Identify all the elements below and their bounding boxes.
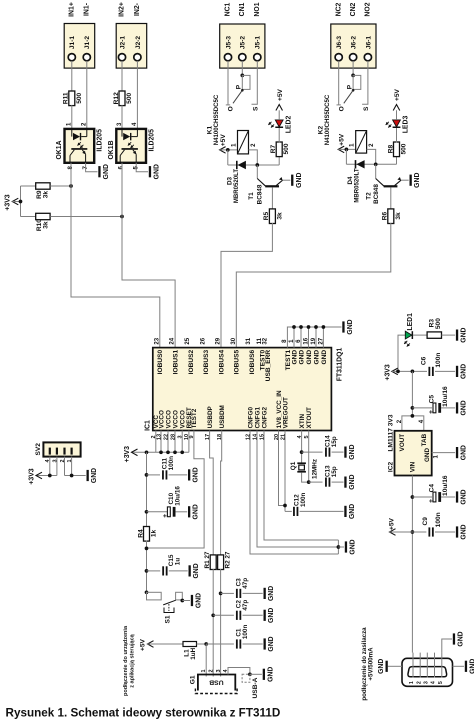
svg-text:10u/16: 10u/16 [174, 486, 181, 506]
capacitor C5 [428, 386, 449, 414]
svg-text:32: 32 [263, 337, 269, 344]
relay K2 contact [337, 61, 371, 112]
wire [300, 510, 344, 512]
svg-text:GND: GND [91, 468, 98, 483]
svg-text:VCCO: VCCO [158, 410, 165, 428]
wire [86, 163, 98, 172]
ground C10 [188, 504, 200, 519]
svg-text:IC1: IC1 [144, 420, 151, 431]
svg-text:GND: GND [193, 467, 200, 482]
svg-text:USB-A: USB-A [252, 677, 259, 698]
note right [361, 627, 375, 701]
node shield [248, 672, 252, 676]
node LED1 [396, 370, 400, 374]
svg-text:100n: 100n [168, 456, 175, 471]
svg-text:2: 2 [208, 669, 214, 672]
IC1 pin USB_ERR [263, 337, 273, 381]
svg-text:15p: 15p [331, 466, 338, 477]
resistor R2 [218, 551, 232, 569]
svg-text:J6-1: J6-1 [365, 36, 372, 50]
wire [411, 476, 413, 653]
wire [136, 163, 148, 172]
svg-text:100n: 100n [242, 625, 249, 640]
mini-USB pins [409, 653, 444, 684]
svg-text:O: O [228, 106, 235, 111]
IC1 bottom power pins [151, 407, 198, 452]
wire [285, 510, 292, 512]
node C11 [145, 473, 149, 477]
svg-text:+3V3: +3V3 [124, 446, 131, 462]
wire [249, 150, 258, 165]
svg-text:NO2: NO2 [365, 2, 372, 16]
svg-text:VCCO: VCCO [172, 410, 179, 428]
wire [302, 472, 309, 482]
wire 3V3 rail [146, 452, 148, 527]
svg-text:LED3: LED3 [403, 116, 410, 134]
connector J6 [331, 2, 376, 68]
wire IOBUS0 [71, 163, 160, 348]
wire [220, 149, 238, 151]
IC1 pin XTIN [297, 414, 306, 439]
svg-text:GND: GND [193, 504, 200, 519]
wire [243, 592, 263, 594]
node VBUS [204, 642, 208, 646]
node +3V3 [19, 200, 23, 204]
svg-text:+3V3: +3V3 [4, 194, 11, 210]
svg-text:GND: GND [321, 350, 328, 365]
supply +3V3 SV2 [28, 468, 42, 484]
caption [6, 707, 281, 720]
svg-text:BC848: BC848 [257, 184, 264, 204]
ground C12 [344, 504, 356, 519]
inductor L1 [183, 642, 197, 660]
wire [278, 128, 280, 143]
svg-text:CNFG2: CNFG2 [261, 406, 268, 428]
svg-text:CNFG0: CNFG0 [247, 406, 254, 428]
svg-text:IOBUS0: IOBUS0 [157, 349, 164, 374]
wire [50, 216, 122, 218]
IC1 pin TEST0 [257, 337, 267, 370]
wire [206, 643, 234, 645]
wire USBDM [221, 431, 222, 556]
svg-text:+5V: +5V [388, 517, 395, 530]
ground T1 [291, 173, 303, 188]
svg-text:GND: GND [298, 350, 305, 365]
wire [212, 569, 214, 677]
ground C11 [188, 467, 200, 482]
ground T2 [410, 173, 422, 188]
IC1 pin 1V8_VCC_IN [274, 390, 283, 440]
wire [402, 416, 424, 431]
svg-text:3k: 3k [276, 212, 283, 220]
svg-text:J2-2: J2-2 [135, 36, 142, 50]
svg-text:IN1+: IN1+ [68, 2, 75, 17]
svg-text:D3: D3 [227, 176, 234, 185]
svg-text:GND: GND [296, 173, 303, 188]
svg-text:R8: R8 [387, 144, 394, 153]
svg-text:500: 500 [400, 143, 407, 154]
ground IC1 [342, 319, 354, 334]
ground mini-USB right [465, 659, 474, 674]
IC1 pin USBDP [205, 406, 214, 440]
ground C4 [456, 489, 468, 504]
wire [121, 105, 123, 129]
svg-text:+5V: +5V [339, 133, 346, 146]
svg-text:S1: S1 [164, 615, 171, 623]
svg-text:GND: GND [195, 593, 202, 608]
IC1 pin TEST1 [282, 339, 292, 370]
svg-text:GND: GND [306, 350, 313, 365]
wire TEST2 [147, 431, 205, 549]
svg-text:+5V: +5V [140, 638, 147, 651]
svg-text:1uH: 1uH [190, 647, 197, 659]
IC1 pin VREGOUT [280, 397, 289, 440]
wire [398, 335, 405, 371]
node C4 [411, 495, 415, 499]
ground SV2 [87, 468, 99, 483]
supply +5V LED3 [393, 88, 401, 110]
svg-text:VIN: VIN [410, 461, 417, 472]
svg-text:GND: GND [291, 350, 298, 365]
svg-text:GND: GND [268, 586, 275, 601]
wire CNFG1 [257, 431, 338, 548]
svg-text:USB_ERR: USB_ERR [265, 350, 272, 382]
svg-text:IN1-: IN1- [83, 2, 90, 16]
resistor R9 [36, 183, 50, 199]
svg-text:USBDM: USBDM [219, 405, 226, 428]
resistor R5 [263, 209, 283, 224]
supply +5V K2 [338, 133, 345, 152]
svg-text:100n: 100n [435, 353, 442, 368]
svg-text:S: S [363, 106, 370, 111]
wire [435, 531, 455, 533]
resistor R1 [204, 551, 216, 569]
wire [213, 614, 234, 616]
wire [278, 110, 280, 120]
wire [346, 163, 396, 165]
svg-text:J5-2: J5-2 [240, 36, 247, 50]
node SV2-3V3 [48, 474, 52, 478]
ground C13 [344, 474, 356, 489]
node R9-OK1A [69, 184, 73, 188]
svg-text:IOBUS4: IOBUS4 [218, 349, 225, 374]
note left [123, 625, 136, 696]
node C10 [145, 510, 149, 514]
svg-text:LED1: LED1 [407, 313, 414, 331]
svg-text:1u: 1u [175, 558, 182, 566]
wire GND bus [287, 325, 341, 347]
svg-text:ILD205: ILD205 [148, 129, 155, 152]
svg-text:+3V3: +3V3 [28, 468, 35, 484]
svg-text:3: 3 [216, 669, 222, 672]
IC1 CNFG pins [245, 406, 268, 440]
svg-text:VCCO: VCCO [165, 410, 172, 428]
optocoupler OK1B [108, 122, 155, 170]
node VOUT [411, 414, 415, 418]
svg-text:GND: GND [349, 539, 356, 554]
wire [205, 644, 207, 677]
svg-text:GND: GND [414, 173, 421, 188]
wire [435, 370, 455, 372]
svg-text:VREGOUT: VREGOUT [282, 397, 289, 428]
ground C6 [456, 364, 468, 379]
svg-text:IOBUS6: IOBUS6 [249, 349, 256, 374]
svg-text:GND: GND [267, 667, 274, 682]
wire +3V3 bus [132, 451, 189, 453]
svg-text:GND: GND [378, 659, 385, 674]
svg-text:R2 27: R2 27 [224, 551, 231, 568]
ground C2 [264, 608, 276, 623]
ground C15 [189, 563, 201, 578]
wire [412, 531, 426, 533]
svg-text:3: 3 [423, 681, 429, 684]
svg-text:podłączenie do urządzenia: podłączenie do urządzenia [123, 625, 129, 696]
wire RESET [188, 431, 190, 453]
node K1 coil [226, 148, 230, 152]
resistor R3 [427, 318, 442, 339]
capacitor C10 [162, 486, 181, 518]
svg-text:+: + [428, 410, 435, 414]
svg-text:R1 27: R1 27 [204, 551, 211, 568]
wire CNFG0 [250, 431, 338, 555]
svg-text:GND: GND [461, 489, 468, 504]
wire [71, 61, 73, 92]
ground C14 [344, 444, 356, 459]
wire [243, 643, 263, 645]
svg-text:12MHz: 12MHz [311, 459, 318, 479]
svg-text:GND: GND [461, 327, 468, 342]
svg-text:4: 4 [431, 681, 437, 684]
wire [271, 187, 273, 209]
svg-text:GND: GND [313, 350, 320, 365]
ground C3 [264, 586, 276, 601]
LED3 [386, 116, 410, 134]
wire [388, 665, 402, 667]
wire [21, 216, 36, 218]
svg-text:N4100CHS5DC5C: N4100CHS5DC5C [214, 94, 220, 145]
wire [197, 643, 207, 645]
supply +5V LED2 [276, 88, 284, 110]
svg-text:+: + [428, 499, 435, 503]
svg-text:J5-3: J5-3 [225, 36, 232, 50]
switch S1 [145, 590, 185, 623]
svg-text:LED2: LED2 [285, 116, 292, 134]
wire [396, 128, 398, 143]
wire [121, 61, 123, 92]
capacitor C13 [324, 465, 337, 487]
wire [412, 407, 432, 409]
svg-text:z aplikacją sterującą: z aplikacją sterującą [129, 633, 135, 687]
svg-text:C5: C5 [428, 395, 435, 404]
svg-text:IN2-: IN2- [134, 2, 141, 16]
supply +3V3 IC1 [124, 446, 137, 462]
IC1 pin USBDM [217, 405, 226, 440]
svg-text:1: 1 [409, 681, 415, 684]
resistor R12 [113, 91, 133, 106]
wire [36, 475, 57, 477]
wire [136, 61, 138, 129]
svg-text:D4: D4 [347, 176, 354, 185]
svg-text:29: 29 [216, 337, 222, 344]
svg-text:CNFG1: CNFG1 [254, 406, 261, 428]
ground C5 [456, 400, 468, 415]
relay K1 coil [231, 131, 256, 154]
svg-text:FT311DQ1: FT311DQ1 [336, 348, 343, 382]
connector SV2 [35, 442, 81, 462]
resistor R11 [63, 91, 83, 106]
svg-text:100n: 100n [435, 512, 442, 527]
svg-text:GND: GND [461, 364, 468, 379]
svg-text:3k: 3k [395, 212, 402, 220]
capacitor C4 [428, 475, 449, 503]
svg-text:IOBUS2: IOBUS2 [188, 349, 195, 374]
ground USB-A [263, 667, 275, 682]
resistor R6 [382, 209, 402, 224]
svg-text:GND: GND [457, 631, 464, 646]
LED1 [404, 313, 414, 347]
node XTOUT [307, 480, 311, 484]
wire [86, 61, 88, 129]
svg-text:J5-1: J5-1 [255, 36, 262, 50]
capacitor C6 [421, 353, 443, 376]
wire [413, 334, 427, 336]
wire CNFG2 [264, 431, 338, 541]
svg-text:GND: GND [268, 636, 275, 651]
node VREG [283, 504, 287, 508]
supply +5V K1 [220, 134, 227, 154]
wire [71, 105, 73, 129]
wire [338, 546, 344, 548]
svg-text:J1-1: J1-1 [69, 36, 76, 50]
ground S1 [191, 593, 203, 608]
svg-text:GND: GND [424, 448, 431, 462]
svg-text:GND: GND [461, 445, 468, 460]
svg-text:5: 5 [438, 681, 444, 684]
svg-text:R4: R4 [137, 529, 144, 538]
supply +3V3 [4, 194, 20, 210]
relay K2 coil [350, 131, 375, 154]
wire [175, 511, 187, 513]
svg-text:31: 31 [246, 337, 252, 344]
svg-text:GND: GND [349, 504, 356, 519]
IC1 top GND pins [289, 337, 328, 364]
svg-text:LM1117 3V3: LM1117 3V3 [388, 414, 395, 451]
svg-text:500: 500 [435, 318, 442, 329]
node C3 [219, 592, 223, 596]
svg-text:O: O [338, 106, 345, 111]
node XTIN [300, 450, 304, 454]
svg-text:500: 500 [126, 92, 133, 103]
resistor R10 [36, 213, 50, 231]
wire [148, 643, 184, 645]
capacitor C11 [162, 456, 175, 480]
node C9 [411, 530, 415, 534]
svg-text:BC848: BC848 [373, 184, 380, 204]
node K2 coil [345, 148, 349, 152]
wire [228, 164, 279, 166]
wire [147, 570, 161, 572]
svg-text:G1: G1 [190, 675, 197, 684]
LED2 [268, 116, 292, 134]
svg-text:GND: GND [193, 563, 200, 578]
svg-text:J2-1: J2-1 [119, 36, 126, 50]
IC1 pin XTOUT [304, 407, 313, 439]
wire shield [228, 668, 250, 675]
wire [221, 592, 234, 594]
wire [367, 149, 376, 164]
node CNFG [337, 545, 341, 549]
wire [278, 156, 280, 165]
ground [98, 164, 110, 179]
node SV2-GND [70, 474, 74, 478]
svg-text:+5V: +5V [277, 88, 284, 101]
connector J2 [116, 2, 147, 68]
capacitor C3 [235, 578, 248, 598]
wire [284, 431, 286, 512]
ground IC2 [456, 445, 468, 460]
supply +3V3 LED1 [384, 364, 398, 380]
wire IOBUS4 [221, 223, 272, 348]
svg-text:OK1B: OK1B [108, 140, 115, 159]
IC IC1 FT311D body [144, 348, 343, 431]
relay K1 name [207, 94, 220, 145]
svg-text:J6-3: J6-3 [336, 36, 343, 50]
svg-text:OK1A: OK1A [56, 140, 63, 159]
wire [412, 496, 432, 498]
svg-text:+5V/500mA: +5V/500mA [368, 647, 375, 681]
wire [441, 496, 455, 498]
wire [65, 475, 86, 477]
wire [396, 110, 398, 120]
svg-text:24: 24 [170, 337, 176, 344]
svg-text:Q1: Q1 [290, 461, 297, 470]
wire IOBUS5 [236, 223, 390, 348]
wire [442, 334, 456, 336]
svg-text:C9: C9 [422, 517, 429, 526]
ground mini-USB top [453, 631, 465, 646]
capacitor C12 [293, 492, 307, 516]
svg-text:GND: GND [347, 319, 354, 334]
diode D4 [347, 160, 365, 203]
svg-text:R6: R6 [382, 211, 389, 220]
svg-text:CN1: CN1 [239, 2, 246, 16]
node 3V3 rail [411, 370, 415, 374]
crystal Q1 [290, 459, 318, 479]
svg-text:R12: R12 [113, 92, 120, 104]
svg-text:TEST2: TEST2 [191, 408, 198, 428]
svg-text:GND: GND [268, 608, 275, 623]
svg-text:R5: R5 [263, 211, 270, 220]
svg-text:NC2: NC2 [335, 2, 342, 16]
svg-text:+3V3: +3V3 [384, 364, 391, 380]
svg-text:30: 30 [231, 337, 237, 344]
svg-text:IOBUS1: IOBUS1 [172, 349, 179, 374]
svg-text:+5V: +5V [220, 134, 227, 147]
IC IC2 LM1117 [388, 414, 432, 475]
svg-text:500: 500 [76, 92, 83, 103]
wire [345, 149, 347, 164]
wire pin5 gnd [442, 639, 452, 653]
svg-text:GND: GND [153, 164, 160, 179]
svg-text:S: S [252, 106, 259, 111]
ground C1 [264, 636, 276, 651]
svg-text:C4: C4 [428, 484, 435, 493]
resistor R7 [270, 142, 290, 157]
wire [338, 148, 356, 150]
svg-text:N4100CHS5DC5C: N4100CHS5DC5C [325, 94, 331, 145]
ground R3 [456, 327, 468, 342]
svg-text:J1-2: J1-2 [84, 36, 91, 50]
